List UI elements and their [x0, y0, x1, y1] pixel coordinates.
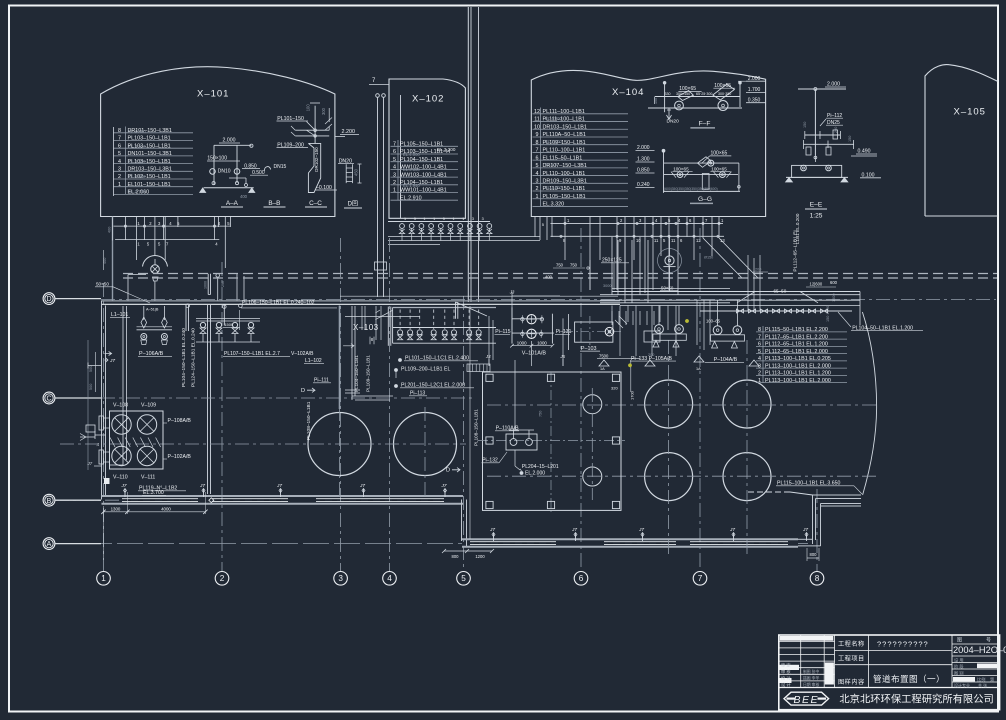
svg-text:北京北环环保工程研究所有限公司: 北京北环环保工程研究所有限公司	[839, 692, 993, 705]
svg-text:1000: 1000	[537, 341, 547, 346]
svg-text:12: 12	[696, 238, 701, 243]
svg-text:1700: 1700	[630, 390, 635, 400]
pump set P-106A/B	[143, 306, 145, 320]
long risers right of X-102	[467, 7, 469, 302]
svg-text:管道布置图（一）: 管道布置图（一）	[873, 673, 945, 684]
tank T4	[723, 380, 771, 428]
tank T2	[394, 413, 457, 476]
svg-text:1000: 1000	[517, 341, 527, 346]
svg-text:审 定: 审 定	[781, 661, 791, 668]
svg-text:800: 800	[452, 554, 460, 559]
svg-text:300×150: 300×150	[676, 92, 690, 96]
svg-text:5: 5	[443, 217, 445, 221]
arrow west	[105, 352, 112, 356]
svg-text:11: 11	[671, 238, 676, 243]
svg-text:校 对: 校 对	[781, 675, 791, 682]
header runs below X-104	[551, 222, 724, 224]
riser drops below X-104	[534, 217, 536, 238]
detail bubble X-104 outline	[531, 70, 765, 216]
valve	[540, 318, 543, 321]
svg-text:A: A	[47, 541, 52, 548]
revision table	[779, 640, 835, 642]
svg-text:J7: J7	[441, 483, 447, 489]
arm 1 E-E	[805, 134, 841, 136]
svg-text:J5: J5	[559, 354, 565, 359]
manifold valve	[467, 330, 472, 335]
column	[547, 374, 554, 381]
filled scale cell	[953, 677, 975, 682]
grid line 6	[580, 228, 582, 572]
pipe run along north wall a	[340, 295, 618, 297]
svg-text:EL.3.200: EL.3.200	[437, 147, 456, 152]
grid line B	[55, 499, 122, 501]
svg-text:6: 6	[579, 574, 584, 583]
filter unit V-108/109/110/111	[110, 411, 164, 469]
svg-text:5: 5	[461, 574, 466, 583]
column mark B1	[104, 478, 110, 484]
svg-text:EL.2.708: EL.2.708	[128, 189, 146, 194]
svg-text:400: 400	[108, 227, 112, 233]
svg-text:BEE: BEE	[794, 694, 820, 706]
grid line 3	[340, 238, 342, 572]
svg-text:600: 600	[830, 280, 838, 285]
pump P-106A	[141, 334, 147, 340]
svg-text:J7: J7	[802, 527, 808, 533]
svg-text:1500: 1500	[832, 294, 836, 302]
vertical pipe E-E	[814, 89, 816, 155]
svg-text:审 核: 审 核	[781, 668, 791, 675]
grid bubble D	[43, 293, 55, 305]
filled rev row	[780, 636, 834, 641]
header row 1	[114, 225, 231, 227]
overhead duct dashed line 2	[123, 277, 997, 279]
svg-text:比例: 比例	[977, 676, 985, 683]
svg-text:400: 400	[240, 194, 248, 199]
tank T5	[645, 453, 693, 501]
east manifold stems	[611, 311, 613, 325]
valve	[540, 332, 543, 335]
east riser drops	[611, 237, 613, 295]
valve	[521, 332, 524, 335]
svg-text:3: 3	[482, 217, 484, 221]
pump P-101 plan symbol	[143, 255, 168, 266]
grid bubble 5	[457, 572, 471, 586]
svg-text:200: 200	[755, 268, 761, 272]
svg-text:150: 150	[848, 136, 852, 142]
valve DN10	[210, 169, 216, 175]
svg-text:图 别: 图 别	[954, 670, 964, 677]
grid line 1	[103, 283, 105, 572]
centerline tanks east lower	[487, 475, 880, 477]
svg-text:EL.4.000: EL.4.000	[403, 152, 420, 157]
header row 2	[115, 239, 219, 241]
grid bubble 3	[334, 572, 348, 586]
svg-text:号: 号	[986, 638, 991, 644]
svg-text:EL.0.982: EL.0.982	[128, 174, 146, 179]
svg-text:E–E: E–E	[810, 202, 823, 209]
trench channel A 604	[604, 541, 676, 543]
riser pipe drop	[377, 97, 379, 297]
svg-text:750: 750	[570, 263, 578, 268]
vessel inlet header	[512, 318, 543, 320]
svg-text:V–111: V–111	[141, 475, 155, 481]
svg-text:X–101: X–101	[197, 89, 229, 100]
svg-text:共 张: 共 张	[978, 682, 987, 688]
trench channel A 470	[470, 541, 556, 543]
column	[612, 374, 619, 381]
trench channel B 212	[212, 498, 288, 500]
svg-text:X–102: X–102	[412, 94, 444, 105]
svg-text:设计专业: 设计专业	[954, 682, 970, 688]
svg-text:3: 3	[338, 574, 343, 583]
pump inline P-107	[665, 256, 674, 265]
svg-text:200: 200	[648, 353, 654, 357]
inline fitting on risers	[375, 262, 387, 270]
svg-text:1A: 1A	[600, 367, 605, 371]
svg-text:描图 李华: 描图 李华	[803, 676, 819, 681]
svg-text:工程名称: 工程名称	[838, 640, 865, 648]
east valve manifold	[700, 310, 852, 312]
grid line C	[101, 397, 475, 399]
risers to V-101	[455, 302, 457, 319]
sump S2	[583, 467, 602, 486]
pump pair P-105A/B	[658, 306, 660, 325]
west wall double line	[101, 301, 103, 500]
svg-text:B–B: B–B	[268, 200, 280, 207]
svg-text:V–110: V–110	[113, 475, 128, 481]
valve diamond B	[162, 317, 168, 328]
column	[486, 501, 493, 508]
svg-text:8: 8	[815, 574, 820, 583]
svg-text:J7: J7	[87, 461, 93, 466]
column	[612, 501, 619, 508]
pump casing F-F b	[713, 84, 735, 100]
svg-text:PL112–65–L1B1 EL: PL112–65–L1B1 EL	[793, 229, 799, 272]
svg-text:G–G: G–G	[698, 196, 712, 203]
anchor triangles	[599, 360, 759, 366]
anchor tri a	[694, 356, 704, 362]
svg-text:J7: J7	[489, 527, 495, 533]
svg-text:EL.2.000: EL.2.000	[525, 471, 545, 477]
pump P-106B	[161, 334, 167, 340]
svg-text:10: 10	[636, 238, 641, 243]
grid line D	[101, 299, 996, 301]
pump P-103	[575, 322, 613, 342]
svg-text:320: 320	[611, 386, 618, 391]
svg-text:1A: 1A	[696, 367, 701, 371]
filled cell b	[825, 663, 834, 685]
inner riser X-102	[400, 95, 402, 218]
yellow highlight dot 2	[685, 319, 688, 322]
svg-text:100–65: 100–65	[706, 319, 721, 324]
svg-text:D回: D回	[348, 201, 358, 208]
svg-text:1200: 1200	[475, 554, 485, 559]
svg-text:F–F: F–F	[699, 120, 711, 127]
svg-text:V–101A/B: V–101A/B	[522, 351, 547, 357]
pump discharge drop	[154, 281, 156, 301]
west interior risers	[122, 306, 124, 465]
svg-text:设 用: 设 用	[954, 657, 964, 664]
svg-text:150×100: 150×100	[207, 156, 227, 162]
svg-text:DN15: DN15	[274, 164, 287, 170]
south trench walls	[462, 538, 798, 540]
svg-text:1: 1	[423, 217, 425, 221]
svg-text:100: 100	[305, 104, 310, 112]
section A-A ground line	[204, 187, 254, 189]
valve manifold center	[393, 307, 496, 309]
vessels V-101A/B	[527, 315, 536, 324]
yellow highlight dot	[628, 364, 631, 367]
svg-text:3: 3	[414, 217, 416, 221]
svg-text:2: 2	[220, 574, 225, 583]
pump casing F-F a	[678, 91, 694, 101]
svg-text:50×50: 50×50	[96, 282, 109, 287]
svg-text:J7: J7	[109, 358, 115, 364]
svg-text:EL.4.000: EL.4.000	[128, 129, 146, 134]
svg-text:EL.3.313: EL.3.313	[128, 144, 146, 149]
tank T3	[645, 380, 693, 428]
pump casing G-G top	[698, 157, 712, 168]
filter drum	[112, 415, 131, 434]
filter drum	[137, 415, 156, 434]
svg-text:J7: J7	[359, 483, 365, 489]
svg-text:第: 第	[990, 676, 994, 683]
svg-text:1000: 1000	[204, 281, 208, 289]
svg-text:J3: J3	[485, 354, 491, 359]
svg-text:P–102A/B: P–102A/B	[168, 454, 192, 460]
dim line 1000 1000	[512, 345, 552, 347]
nozzle box a	[99, 416, 104, 430]
north wall double line	[101, 300, 620, 302]
drain arrow F-F	[667, 108, 672, 120]
grid bubble A	[43, 538, 55, 550]
column	[486, 437, 493, 444]
BEE logo	[784, 692, 829, 705]
centerline tanks west	[60, 443, 466, 445]
grid line 7	[699, 228, 701, 572]
column	[612, 437, 619, 444]
pump set P-110A/B	[506, 434, 537, 450]
filled cell c	[780, 678, 792, 683]
column	[547, 501, 554, 508]
svg-text:PL108–150–L1B1: PL108–150–L1B1	[306, 401, 312, 440]
svg-text:EL.4.000: EL.4.000	[545, 116, 562, 121]
grid line A	[55, 543, 462, 545]
vessel outlet header	[512, 332, 554, 334]
riser pair west	[185, 305, 187, 331]
svg-text:Ø150: Ø150	[704, 256, 713, 260]
svg-text:1:25: 1:25	[810, 213, 823, 220]
trench channel B 122	[122, 498, 198, 500]
svg-text:阶 段: 阶 段	[954, 663, 964, 670]
svg-text:C–C: C–C	[309, 200, 322, 207]
ladder symbol	[346, 164, 352, 183]
svg-text:50×50: 50×50	[661, 286, 674, 291]
grid bubble 2	[215, 572, 229, 586]
svg-text:日期 审核: 日期 审核	[803, 682, 819, 687]
svg-text:A–A: A–A	[226, 200, 239, 207]
svg-text:PL124–150–L1B1 EL.0.240: PL124–150–L1B1 EL.0.240	[191, 328, 197, 387]
header line upper	[388, 221, 490, 223]
svg-text:1: 1	[433, 217, 435, 221]
detail bubble X-102 outline	[389, 79, 465, 218]
riser grid2	[223, 305, 225, 325]
manifold valve	[417, 330, 422, 335]
valve diamond A	[141, 317, 147, 328]
step wall at grid 5	[461, 500, 463, 542]
east channel walls	[812, 495, 814, 544]
manifold valve	[452, 330, 457, 335]
pump guard circle	[658, 249, 682, 273]
dimension 800 east	[807, 557, 819, 559]
svg-text:200: 200	[834, 127, 838, 133]
svg-text:J7: J7	[729, 527, 735, 533]
nozzle box b	[99, 450, 104, 464]
svg-text:J7: J7	[571, 527, 577, 533]
drop to P-110	[514, 360, 516, 430]
svg-text:1: 1	[101, 574, 106, 583]
svg-text:D: D	[446, 468, 450, 474]
arm 2 E-E	[804, 143, 854, 145]
grid line 4	[389, 238, 391, 572]
detail bubble X-105 outline	[925, 65, 998, 216]
filter drum	[112, 446, 131, 465]
svg-text:1: 1	[462, 217, 464, 221]
tank T6	[723, 453, 771, 501]
overhead duct dashed line 1	[123, 273, 997, 275]
svg-text:4: 4	[387, 574, 392, 583]
break line east	[862, 312, 876, 495]
svg-text:PL204–15–L201: PL204–15–L201	[522, 464, 559, 470]
grid line 2	[221, 262, 223, 572]
east run extra	[612, 288, 730, 290]
manifold valve	[431, 330, 436, 335]
filled stage cell	[977, 664, 997, 669]
svg-text:B: B	[47, 498, 52, 505]
svg-text:EL.3.100: EL.3.100	[403, 167, 420, 172]
pump skid E-E	[792, 165, 842, 177]
svg-text:图样内容: 图样内容	[838, 678, 865, 686]
X101 table left rule	[113, 127, 115, 196]
east run extra2	[600, 299, 860, 301]
svg-text:PL108–150–L1B1: PL108–150–L1B1	[474, 409, 479, 446]
svg-text:DN10: DN10	[218, 169, 231, 175]
equipment room outline	[483, 372, 622, 510]
svg-text:X–103: X–103	[353, 323, 379, 332]
svg-text:3: 3	[472, 217, 474, 221]
svg-text:EL.2.000: EL.2.000	[545, 185, 562, 190]
diagonal feeds to east cluster	[703, 238, 758, 278]
hose loop	[264, 167, 270, 171]
manifold valve	[442, 330, 447, 335]
svg-text:800: 800	[810, 552, 818, 557]
svg-text:P–108A/B: P–108A/B	[168, 418, 192, 424]
sump S1	[583, 395, 602, 414]
manifold valve	[408, 330, 413, 335]
svg-text:500: 500	[89, 384, 93, 390]
trench channel B 316	[316, 498, 444, 500]
svg-text:X–105: X–105	[954, 107, 986, 118]
svg-text:D: D	[46, 296, 51, 303]
svg-text:500: 500	[89, 366, 93, 372]
svg-text:150: 150	[803, 122, 807, 128]
riser pair to plan	[207, 274, 209, 295]
east risers to manifold	[747, 255, 749, 311]
valve	[521, 318, 524, 321]
grid bubble 1	[97, 572, 111, 586]
filled cell a	[780, 665, 800, 670]
dimension 1300/4000	[104, 511, 206, 513]
manifold valve	[476, 330, 481, 335]
misc connecting pipes center	[488, 316, 490, 366]
PL115 pipe run into channel	[748, 491, 790, 493]
svg-text:EL.1.5: EL.1.5	[545, 162, 558, 167]
svg-text:PL106–150–L1B1 EL.0.240–102: PL106–150–L1B1 EL.0.240–102	[242, 300, 315, 306]
trench channel A 690	[690, 541, 788, 543]
tank T1	[308, 413, 371, 476]
valve row near grid 2	[200, 322, 205, 327]
svg-text:7: 7	[698, 574, 703, 583]
detail bubble X-101 outline	[101, 67, 335, 217]
svg-text:1: 1	[453, 217, 455, 221]
svg-text:V–108: V–108	[113, 403, 128, 409]
svg-text:EL.3.100: EL.3.100	[545, 139, 562, 144]
svg-text:V–109: V–109	[141, 403, 156, 409]
svg-text:4000: 4000	[161, 507, 171, 512]
title block outline	[779, 635, 1000, 710]
grid bubble B	[43, 494, 55, 506]
dimension 800/1200	[444, 550, 492, 552]
svg-text:C: C	[46, 396, 51, 403]
drops to pump anchors	[611, 306, 613, 323]
svg-text:PL109–200–L1B1 EL: PL109–200–L1B1 EL	[401, 367, 450, 373]
svg-text:EL.3.320: EL.3.320	[128, 159, 146, 164]
svg-text:12|600: 12|600	[810, 282, 823, 287]
section detail F-F	[655, 96, 740, 98]
svg-text:工程项目: 工程项目	[838, 655, 865, 663]
svg-text:1300: 1300	[111, 507, 121, 512]
header line lower	[388, 236, 540, 238]
svg-text:450: 450	[354, 168, 359, 176]
svg-text:750: 750	[539, 411, 543, 417]
svg-text:DR102–150: DR102–150	[314, 147, 319, 172]
leader marks	[343, 310, 392, 348]
svg-text:??????????: ??????????	[877, 640, 929, 649]
svg-text:100×65: 100×65	[673, 166, 689, 171]
svg-text:J7: J7	[276, 483, 282, 489]
grid line 5	[463, 296, 465, 572]
pump pair P-104A/B	[717, 300, 719, 326]
riser along room west	[469, 306, 471, 539]
flow diamond	[209, 498, 214, 503]
centerline tanks east upper	[487, 404, 880, 406]
svg-text:J7: J7	[199, 483, 205, 489]
grid line 8	[816, 489, 818, 572]
west dimension line	[87, 340, 89, 470]
long riser pair to trench	[207, 305, 209, 494]
column	[486, 374, 493, 381]
svg-text:7500: 7500	[599, 354, 609, 359]
grid bubble 6	[574, 572, 588, 586]
south wall west segment	[102, 495, 464, 497]
inline equipment box	[644, 331, 660, 342]
riser at wall	[351, 306, 353, 400]
svg-text:♫: ♫	[96, 442, 100, 448]
grid bubble 8	[810, 572, 824, 586]
svg-text:PL104–150–L1B1 EL.0.240: PL104–150–L1B1 EL.0.240	[181, 328, 187, 387]
svg-text:EL.1.940: EL.1.940	[403, 183, 420, 188]
svg-text:100×65: 100×65	[711, 166, 727, 171]
